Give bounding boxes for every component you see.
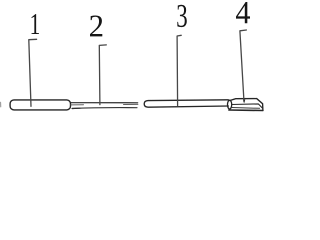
shaft inner line right segment (part 2): [124, 103, 138, 105]
blade outline top and right (part 4): [230, 99, 263, 111]
shaft bottom line dark start: [72, 107, 80, 109]
shaft top line (part 2): [71, 102, 138, 104]
barrel (part 3 body): [144, 100, 228, 107]
handle (part 1 body): [10, 100, 70, 110]
reference numeral 3: [177, 5, 187, 27]
leader 4 arrowhead: [243, 100, 245, 104]
reference numeral 1: [32, 14, 40, 34]
tip collar ellipse: [228, 100, 232, 109]
leader line 4: [240, 30, 247, 102]
leader line 3: [177, 35, 181, 105]
shaft inner line left segment (part 2): [71, 104, 84, 106]
blade inner top edge with bevel: [232, 104, 263, 108]
shaft bottom line (part 2): [72, 107, 137, 110]
leader line 2: [99, 45, 106, 105]
leader line 1: [29, 39, 37, 106]
blade front lower edge: [232, 107, 260, 110]
reference numeral 4: [236, 2, 250, 23]
blade bottom edge: [229, 109, 263, 112]
left edge scan artifact: [0, 102, 2, 107]
reference numeral 2: [90, 16, 102, 37]
